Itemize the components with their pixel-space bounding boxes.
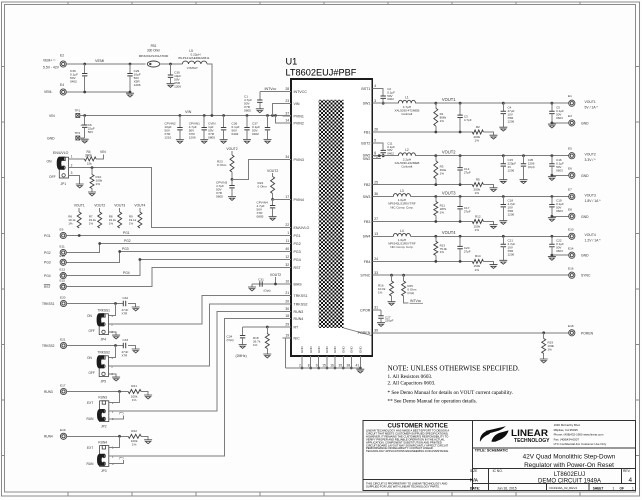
resistor R12 [472, 214, 483, 232]
resistor R9 [129, 212, 142, 228]
resistor R10 [90, 168, 103, 192]
svg-text:SW4: SW4 [363, 235, 371, 239]
capacitor C22 [549, 236, 564, 253]
terminal E18 POREN [568, 324, 594, 336]
svg-text:PG4: PG4 [123, 271, 130, 275]
svg-text:R22: R22 [131, 429, 137, 433]
ferrite bead FB1 [139, 44, 169, 67]
U1 pin 12 PG4 (left) [283, 255, 301, 262]
svg-text:FB1: FB1 [364, 130, 371, 134]
wire R22 to ground [141, 436, 148, 440]
svg-text:VOUT1: VOUT1 [442, 97, 456, 102]
date row [470, 486, 634, 490]
svg-text:1%: 1% [475, 228, 480, 232]
svg-text:8: 8 [308, 364, 310, 368]
wire VEM- return [66, 91, 131, 94]
terminal E21 TRKSS2 [42, 337, 67, 348]
svg-text:2: 2 [71, 163, 73, 167]
wire FB2 net [381, 183, 472, 186]
svg-text:VEMI: VEMI [95, 59, 104, 63]
wire VOUT1 rail [416, 102, 569, 105]
svg-text:L3: L3 [400, 189, 404, 193]
svg-text:E11: E11 [60, 244, 66, 248]
wire FB3 net [381, 220, 472, 223]
svg-text:2: 2 [374, 154, 376, 158]
svg-text:1: 1 [71, 155, 73, 159]
svg-text:16: 16 [330, 364, 334, 368]
capacitor C18 [501, 197, 516, 221]
svg-text:PG2: PG2 [124, 239, 131, 243]
svg-text:DC1949A_02_REV4: DC1949A_02_REV4 [550, 486, 578, 490]
svg-text:L4: L4 [400, 229, 404, 233]
svg-text:1%: 1% [475, 191, 480, 195]
svg-text:FB3: FB3 [364, 220, 371, 224]
resistor R6 [68, 212, 81, 228]
U1 pin 27 FB3 (right) [364, 217, 381, 224]
Linear Technology logotype [511, 428, 550, 444]
svg-text:22: 22 [285, 223, 289, 227]
ground at R19 [540, 359, 548, 363]
capacitor C33 [122, 338, 136, 358]
svg-text:E21: E21 [60, 337, 66, 341]
svg-text:U1: U1 [286, 57, 298, 67]
ground at CPVIN4 [269, 217, 277, 221]
svg-text:BST2: BST2 [361, 141, 370, 145]
wire RUN4 input [67, 435, 129, 438]
wire FB4 net [381, 260, 472, 263]
svg-text:PG3: PG3 [294, 250, 301, 254]
wire PG2 net [66, 242, 291, 252]
svg-text:GND: GND [349, 346, 353, 354]
svg-text:RUN4: RUN4 [294, 317, 304, 321]
svg-text:EN/UVLO: EN/UVLO [294, 226, 310, 230]
wire PG1 net [66, 234, 291, 237]
svg-text:VOUT2: VOUT2 [270, 273, 281, 277]
capacitor C6 [80, 116, 95, 139]
wire TP2 to ground [80, 137, 85, 139]
wire VOUT4 rail [411, 235, 569, 238]
svg-text:3.3V / *: 3.3V / * [585, 158, 597, 162]
svg-text:OFF: OFF [89, 371, 95, 375]
wire E8 to output cap [551, 207, 569, 218]
ground at C36 [243, 140, 251, 144]
terminal E11 PG2 [44, 244, 66, 255]
jumper JP5 [87, 351, 113, 384]
svg-text:2. All Capacitors 0603.: 2. All Capacitors 0603. [388, 381, 436, 387]
svg-text:R21: R21 [131, 384, 137, 388]
svg-text:E14: E14 [568, 246, 574, 250]
svg-text:PG4: PG4 [44, 274, 51, 278]
svg-text:VOUT1: VOUT1 [585, 100, 596, 104]
wire JP2 pin3 stub [109, 415, 124, 419]
svg-text:LINEAR TECHNOLOGY HAS MADE A B: LINEAR TECHNOLOGY HAS MADE A BEST EFFORT… [366, 429, 449, 454]
svg-text:GND: GND [317, 346, 321, 354]
ground at C27 [377, 323, 385, 327]
wire PG3 net [66, 250, 291, 262]
ground at R2 [490, 135, 498, 139]
svg-text:25: 25 [374, 180, 378, 184]
ground at C31 [248, 287, 256, 291]
svg-text:IHLP1212AERR22M11: IHLP1212AERR22M11 [178, 56, 210, 60]
wire JP2 pin2 to U1 RUN3 [109, 312, 291, 412]
svg-text:1.8V / 1A *: 1.8V / 1A * [585, 199, 602, 203]
U1 pin 39 POREN (right) [358, 329, 381, 336]
wire SW2 node [381, 155, 398, 157]
wire R21 to ground [141, 392, 148, 396]
svg-text:E2: E2 [60, 54, 64, 58]
svg-text:INTVcc: INTVcc [410, 299, 421, 303]
capacitor CPVIN3 [216, 179, 235, 198]
svg-text:JP3: JP3 [101, 469, 107, 473]
wire JP4 pin3 to ground [108, 332, 116, 335]
U1 pin 5 BST2 (right) [361, 139, 381, 146]
wire VIN to pin 23 [273, 104, 292, 116]
svg-text:35: 35 [339, 364, 343, 368]
svg-text:GND: GND [309, 346, 313, 354]
svg-text:5V / 1A *: 5V / 1A * [585, 106, 599, 110]
terminal E10 VOUT4 [568, 227, 601, 242]
svg-text:RUN4: RUN4 [98, 440, 107, 444]
svg-text:VIN: VIN [100, 150, 106, 154]
svg-text:RUN3: RUN3 [44, 390, 53, 394]
svg-text:GND: GND [341, 346, 345, 354]
svg-text:12: 12 [285, 255, 289, 259]
title text [475, 448, 616, 469]
svg-text:E3: E3 [568, 114, 572, 118]
svg-text:41: 41 [356, 364, 360, 368]
resistor R1 [434, 103, 447, 132]
svg-text:5: 5 [374, 139, 376, 143]
U1 pin 35 GND (bottom) [339, 346, 346, 370]
ground at C29 [126, 93, 134, 97]
svg-text:VOUT4: VOUT4 [585, 233, 596, 237]
terminal E5 VOUT2 [568, 147, 596, 162]
svg-text:FB4: FB4 [364, 260, 371, 264]
U1 pin 19 N/C (left) [283, 334, 301, 341]
resistor R25 [402, 275, 417, 303]
test point TP2 GND [47, 131, 80, 140]
terminal E15 RST [44, 278, 67, 289]
U1 pin 24 FB4 (right) [364, 257, 381, 264]
net label VOUT2 at R7 [94, 204, 105, 213]
svg-text:RUN3: RUN3 [98, 396, 107, 400]
svg-text:E4: E4 [60, 83, 64, 87]
svg-text:R12: R12 [475, 214, 481, 218]
U1 pin 3 SW1 (right) [363, 99, 381, 106]
ground at JP4 pin3 [112, 335, 120, 339]
wire INTVCC from pin 28 [260, 91, 291, 93]
capacitor C2 (BST1 bootstrap) [381, 87, 396, 105]
ground at C34 [239, 345, 247, 349]
svg-text:VEM-: VEM- [44, 90, 52, 94]
svg-text:GND: GND [333, 346, 337, 354]
ground at CPVIN2 [176, 140, 184, 144]
U1 pin 36 SW3 (right) [363, 192, 381, 199]
wire JP3 pin3 stub [109, 460, 124, 464]
svg-text:VOUT3: VOUT3 [585, 193, 596, 197]
capacitor C36 [232, 116, 250, 140]
svg-text:34: 34 [285, 155, 289, 159]
capacitor C3 [457, 103, 471, 132]
svg-text:E7: E7 [568, 188, 572, 192]
svg-text:(2MHz): (2MHz) [236, 354, 247, 358]
svg-text:INTVcc: INTVcc [265, 87, 277, 91]
svg-text:OFF: OFF [49, 175, 56, 179]
svg-text:PG2: PG2 [294, 242, 301, 246]
capacitor C21 [501, 236, 516, 260]
svg-text:(Opt): (Opt) [264, 289, 271, 293]
svg-text:GND: GND [581, 121, 589, 125]
svg-text:VOUT3: VOUT3 [114, 204, 125, 208]
ground under U1 GND bus [356, 369, 364, 373]
svg-text:9: 9 [316, 364, 318, 368]
terminal E3 GND [568, 114, 589, 126]
wire FB1 to L5 [160, 63, 183, 66]
svg-text:TRKSS1: TRKSS1 [98, 309, 111, 313]
ground at R21 [144, 395, 152, 399]
svg-text:JP1: JP1 [61, 182, 67, 186]
svg-text:C33: C33 [122, 338, 128, 342]
svg-text:30: 30 [285, 307, 289, 311]
ground at C37 [264, 140, 272, 144]
terminal E8 GND [568, 208, 589, 220]
wire RST net [66, 268, 291, 287]
svg-text:NOTE: UNLESS OTHERWISE SPECIFI: NOTE: UNLESS OTHERWISE SPECIFIED. [388, 365, 520, 373]
U1 pin 29 RT (left) [283, 323, 300, 330]
wire R12 to ground [483, 222, 493, 225]
svg-text:VOUT2: VOUT2 [226, 147, 237, 151]
U1 pin 15 GND (bottom) [322, 346, 329, 370]
U1 pin 20 TRKSS2 (left) [283, 300, 308, 307]
svg-text:TRKSS2: TRKSS2 [98, 351, 111, 355]
U1 pin 14 PVIN2 (left) [283, 119, 304, 126]
ground at C35 [520, 180, 528, 184]
U1 pin 32 RST (left) [283, 263, 302, 270]
svg-text:INTVCC: INTVCC [294, 90, 308, 94]
capacitor C31 [258, 278, 270, 293]
svg-text:36: 36 [374, 192, 378, 196]
svg-text:PG3: PG3 [44, 261, 51, 265]
svg-text:R2: R2 [476, 125, 480, 129]
svg-text:33: 33 [374, 271, 378, 275]
capacitor CVIN [208, 116, 226, 140]
wire R24 to pin 17 PVIN4 [273, 198, 291, 200]
svg-text:31: 31 [374, 306, 378, 310]
svg-text:PG2: PG2 [44, 251, 51, 255]
U1 pin 26 FB1 (right) [364, 128, 381, 135]
capacitor C17 [457, 197, 471, 222]
svg-text:R14: R14 [475, 254, 481, 258]
svg-text:TRKSS2: TRKSS2 [294, 302, 308, 306]
svg-text:4: 4 [629, 477, 633, 484]
svg-text:E12: E12 [60, 254, 66, 258]
U1 exposed pad diagonal [344, 328, 372, 336]
terminal E14 GND [568, 246, 589, 258]
wire PG4 net [66, 258, 291, 276]
wire SW2 pin stubs [372, 154, 384, 158]
svg-text:JP4: JP4 [101, 337, 107, 341]
svg-text:GND: GND [47, 136, 55, 140]
wire R2 to ground [483, 132, 493, 135]
svg-text:REV.: REV. [623, 469, 631, 473]
svg-text:E15: E15 [60, 278, 66, 282]
capacitor C20 [457, 236, 471, 261]
svg-text:38: 38 [347, 364, 351, 368]
terminal E12 PG3 [44, 254, 66, 265]
svg-text:E13: E13 [60, 267, 66, 271]
capacitor C5 [549, 103, 564, 120]
capacitor C30 [168, 64, 182, 89]
svg-text:ON: ON [87, 314, 92, 318]
wire R5 to ground [483, 185, 493, 188]
svg-text:SHEET: SHEET [593, 486, 604, 490]
svg-text:1%: 1% [475, 138, 480, 142]
U1 pin 8 GND (bottom) [308, 346, 313, 370]
svg-text:SW3: SW3 [363, 195, 371, 199]
svg-text:1: 1 [613, 486, 615, 490]
U1 pin 17 PVIN4 (left) [283, 195, 304, 202]
U1 pin 31 CPOR (right) [360, 306, 381, 313]
svg-text:VOUT4: VOUT4 [134, 204, 145, 208]
inductor L1 [394, 96, 419, 116]
size and part row [470, 469, 633, 485]
svg-text:** See Demo Manual for operati: ** See Demo Manual for operation details… [388, 397, 477, 404]
capacitor C29 [127, 64, 141, 92]
U1 pin 10 BIAS (left) [283, 280, 303, 287]
svg-text:L2: L2 [405, 148, 409, 152]
svg-text:TITLE: SCHEMATIC: TITLE: SCHEMATIC [475, 448, 509, 452]
svg-text:BIAS: BIAS [294, 282, 303, 286]
svg-text:ON: ON [87, 356, 92, 360]
resistor R7 [89, 212, 102, 228]
ground at C32 [132, 307, 140, 311]
ground at E3 [548, 124, 556, 128]
net label VOUT1 at R6 [74, 204, 85, 213]
U1 pin 25 FB2 (right) [364, 180, 381, 187]
ground at R12 [490, 225, 498, 229]
wire JP4 pin1 to TRKSS1 node [108, 304, 115, 316]
capacitor C14 [457, 156, 471, 185]
U1 pin 18 RUN4 (left) [283, 314, 304, 321]
svg-text:VIN: VIN [294, 102, 300, 106]
resistor R14 [472, 254, 483, 272]
terminal E9 PG1 [44, 227, 66, 238]
svg-text:C31: C31 [258, 278, 264, 282]
wire SW4 node [381, 235, 393, 237]
svg-text:EN/UVLO: EN/UVLO [53, 151, 69, 155]
svg-text:(**): (**) [119, 411, 123, 415]
svg-text:23: 23 [285, 99, 289, 103]
wire TRKSS2 input [67, 344, 124, 347]
U1 pin 9 GND (bottom) [316, 346, 321, 370]
ground at R16 [388, 302, 396, 306]
capacitor C32 [122, 296, 136, 316]
U1 pin 37 PVIN1 (left) [283, 112, 304, 119]
U1 pin 21 TRKSS1 (left) [283, 291, 308, 298]
svg-text:VOUT2: VOUT2 [267, 169, 278, 173]
svg-text:42V Quad Monolithic Step-Down: 42V Quad Monolithic Step-Down [523, 454, 616, 461]
svg-text:E1: E1 [568, 94, 572, 98]
U1 exposed pad (checkerboard) [319, 100, 344, 328]
wire JP5 pin1 to TRKSS2 node [108, 346, 115, 358]
ground at C18 [499, 221, 507, 225]
terminal E1 VOUT1 [568, 94, 598, 109]
svg-text:1%: 1% [132, 398, 137, 402]
svg-text:E5: E5 [568, 147, 572, 151]
svg-text:JP2: JP2 [101, 424, 107, 428]
svg-text:GND: GND [581, 215, 589, 219]
svg-text:VOUT2: VOUT2 [442, 150, 456, 155]
svg-text:340k: 340k [85, 154, 92, 158]
wire POREN net [381, 331, 569, 334]
svg-text:TP2: TP2 [75, 131, 81, 135]
net label VOUT2 at R23 [226, 147, 237, 155]
svg-text:VOUT4: VOUT4 [442, 230, 456, 235]
U1 pin 1 PG1 (left) [283, 231, 301, 238]
svg-text:L1: L1 [405, 96, 409, 100]
resistor R5 [472, 177, 483, 195]
wire RT net [243, 326, 291, 329]
svg-text:Jun 16, 2015: Jun 16, 2015 [497, 486, 517, 490]
wire GND bus under U1 [285, 367, 360, 369]
U1 pin 2 GND (bottom) [299, 346, 304, 370]
svg-text:15: 15 [322, 364, 326, 368]
wire E3 to output cap [551, 114, 569, 125]
capacitor C16 [549, 156, 564, 173]
wire L5 to VIN rail [207, 64, 212, 116]
svg-text:1%: 1% [475, 268, 480, 272]
wire VIN to pin 14 PVIN2 [276, 116, 292, 124]
resistor R22 [128, 429, 141, 447]
ground at R5 [490, 188, 498, 192]
svg-text:EXT: EXT [87, 401, 93, 405]
wire N/C pin to GND bus [285, 338, 291, 368]
U1 pin 13 SW4 (right) [363, 232, 381, 239]
svg-text:SW1: SW1 [363, 102, 371, 106]
wire JP1 pin1 to R4 [69, 158, 85, 160]
net label VOUT2 at BIAS [270, 273, 281, 284]
wire JP3 pin2 to U1 RUN4 [109, 319, 291, 457]
terminal E20 TRKSS1 [42, 295, 67, 306]
capacitor C19 [549, 197, 564, 214]
svg-text:BST1: BST1 [361, 87, 370, 91]
svg-text:POREN: POREN [581, 331, 594, 335]
svg-text:EXT: EXT [87, 446, 93, 450]
resistor R19 [542, 333, 555, 359]
svg-text:CPOR: CPOR [360, 308, 371, 312]
capacitor CPVIN1 [189, 116, 207, 140]
svg-text:26: 26 [374, 128, 378, 132]
svg-text:VOUT1: VOUT1 [74, 204, 85, 208]
ground at E6 [548, 177, 556, 181]
customer notice text [366, 422, 449, 488]
U1 pin 22 EN/UVLO (left) [283, 223, 310, 230]
svg-text:3: 3 [71, 171, 73, 175]
svg-text:1%: 1% [87, 162, 92, 166]
svg-text:GND: GND [581, 174, 589, 178]
inductor L2 [394, 148, 419, 168]
U1 pin 30 RUN3 (left) [283, 307, 304, 314]
svg-text:29: 29 [285, 323, 289, 327]
terminal E16 SYNC [568, 266, 591, 278]
wire EN from JP1 pin2 to U1 pin 22 [69, 166, 292, 227]
svg-text:32: 32 [285, 263, 289, 267]
svg-text:N/A: N/A [470, 477, 479, 482]
wire VIN rail [80, 114, 291, 117]
svg-text:IC NO.: IC NO. [493, 469, 503, 473]
wire R14 to ground [483, 261, 493, 264]
svg-text:SW2: SW2 [363, 157, 371, 161]
